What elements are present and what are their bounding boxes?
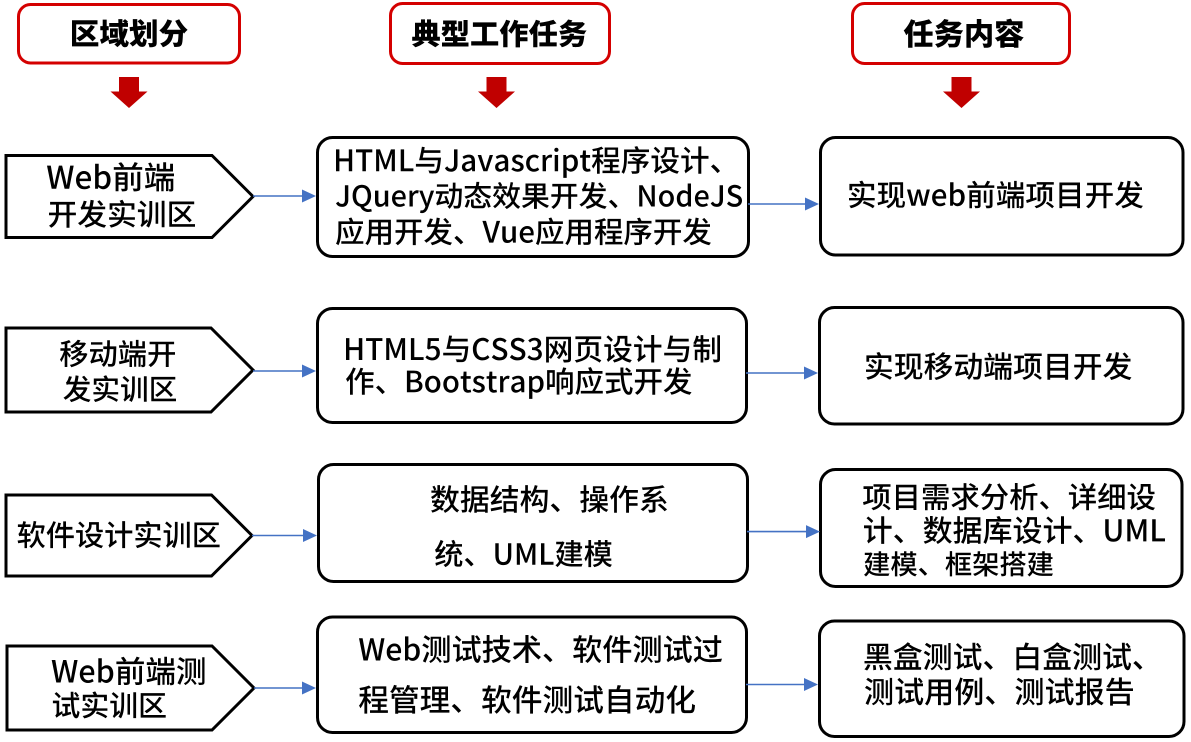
header box 区域划分 bbox=[19, 5, 240, 64]
content text 实现web前端项目开发 bbox=[849, 181, 1143, 209]
content text 实现移动端项目开发 bbox=[866, 352, 1132, 380]
content text 项目需求分析、详细设 bbox=[863, 483, 1155, 510]
pentagon label Web前端 bbox=[47, 162, 174, 191]
header label 任务内容 bbox=[904, 19, 1024, 48]
content text 黑盒测试、白盒测试、 bbox=[864, 642, 1142, 670]
pentagon label 试实训区 bbox=[53, 691, 166, 718]
content text 计、数据库设计、UML bbox=[864, 516, 1165, 544]
task text 统、UML建模 bbox=[435, 540, 612, 567]
pentagon 软件设计实训区 bbox=[6, 495, 252, 576]
wire row4 task to content box bbox=[746, 678, 818, 691]
header label 典型工作任务 bbox=[412, 19, 586, 47]
task text HTML5与CSS3网页设计与制 bbox=[346, 335, 720, 363]
header box 任务内容 bbox=[853, 4, 1070, 64]
content box row1 (实现web前端项目开发) bbox=[821, 138, 1184, 256]
task box row2 (HTML5/CSS3) bbox=[318, 309, 747, 423]
wire row1 pentagon to task box bbox=[253, 190, 316, 203]
wire row2 pentagon to task box bbox=[253, 365, 316, 378]
pentagon label 移动端开 bbox=[60, 340, 175, 367]
pentagon Web前端开发实训区 bbox=[6, 156, 253, 238]
task text 作、Bootstrap响应式开发 bbox=[346, 367, 692, 399]
task text 程管理、软件测试自动化 bbox=[359, 685, 695, 714]
pentagon 移动端开发实训区 bbox=[6, 328, 253, 412]
wire row1 task to content box bbox=[748, 198, 819, 211]
wire row3 pentagon to task box bbox=[252, 529, 317, 542]
content box row3 (项目需求分析) bbox=[821, 470, 1183, 587]
pentagon label Web前端测 bbox=[52, 657, 205, 686]
task box row1 (HTML/Javascript) bbox=[318, 138, 749, 257]
task text JQuery动态效果开发、NodeJS bbox=[336, 182, 742, 213]
task text 数据结构、操作系 bbox=[431, 485, 667, 513]
red down arrow under 区域划分 bbox=[111, 77, 148, 108]
task text HTML与Javascript程序设计、 bbox=[336, 146, 720, 178]
content box row4 (黑盒测试) bbox=[820, 621, 1185, 737]
wire row4 pentagon to task box bbox=[254, 682, 316, 695]
task text Web测试技术、软件测试过 bbox=[359, 635, 722, 663]
red down arrow under 任务内容 bbox=[943, 77, 980, 108]
header box 典型工作任务 bbox=[391, 4, 610, 64]
wire row2 task to content box bbox=[746, 367, 818, 380]
header label 区域划分 bbox=[72, 19, 188, 47]
wire row3 task to content box bbox=[747, 525, 820, 538]
content text 建模、框架搭建 bbox=[864, 551, 1053, 576]
task box row3 (数据结构) bbox=[319, 465, 748, 582]
red down arrow under 典型工作任务 bbox=[478, 77, 515, 108]
content box row2 (实现移动端项目开发) bbox=[820, 308, 1184, 425]
task box row4 (Web测试技术) bbox=[318, 617, 747, 733]
content text 测试用例、测试报告 bbox=[865, 677, 1133, 705]
task text 应用开发、Vue应用程序开发 bbox=[336, 218, 711, 246]
pentagon Web前端测试实训区 bbox=[7, 646, 254, 730]
pentagon label 软件设计实训区 bbox=[18, 521, 220, 548]
pentagon label 开发实训区 bbox=[49, 200, 195, 228]
pentagon label 发实训区 bbox=[64, 375, 177, 402]
